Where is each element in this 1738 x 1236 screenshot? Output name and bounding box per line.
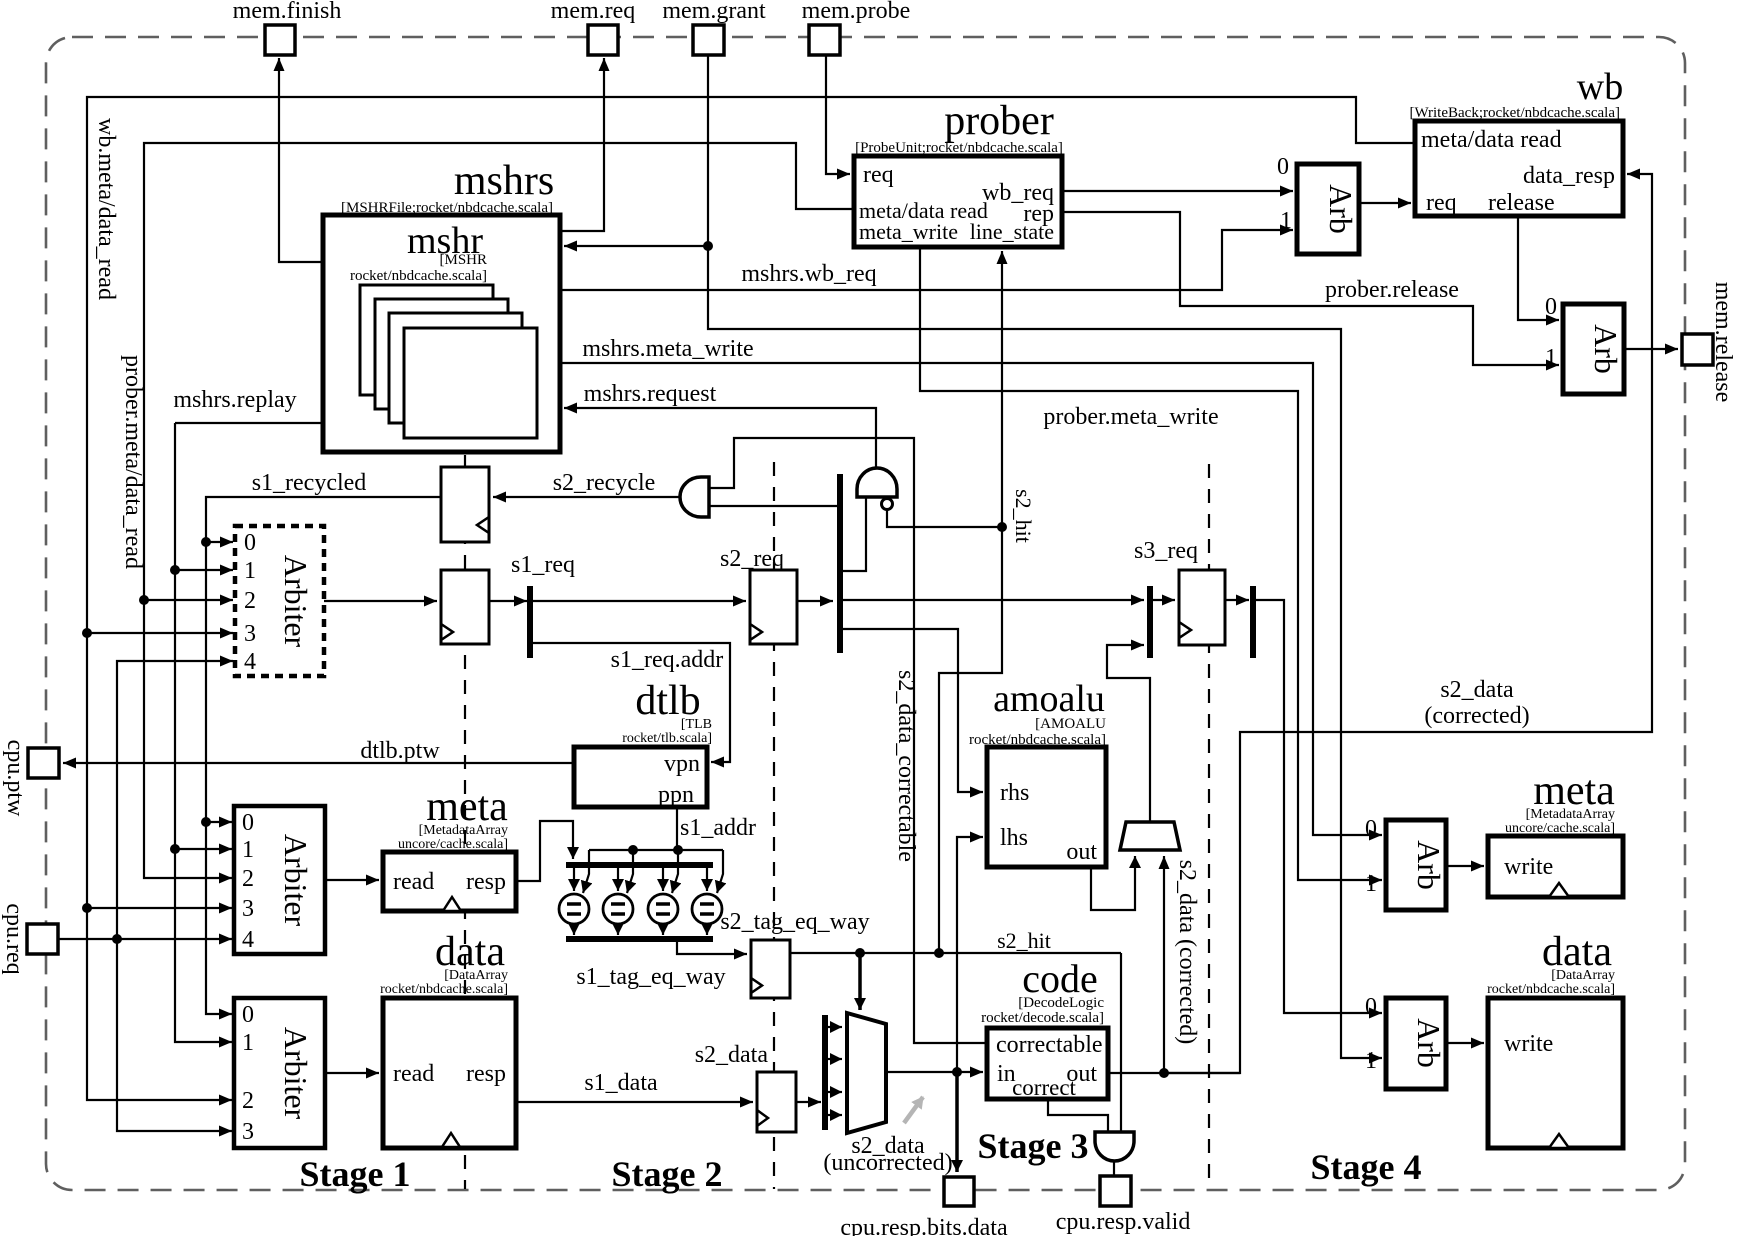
svg-text:0: 0: [244, 530, 256, 556]
svg-text:mshrs.request: mshrs.request: [584, 381, 717, 407]
comparator circle 1: [559, 894, 589, 924]
svg-text:mshrs.replay: mshrs.replay: [173, 387, 296, 413]
svg-text:out: out: [1066, 839, 1097, 865]
svg-text:[DataArray: [DataArray: [1551, 968, 1615, 983]
junction s2_hit: [997, 522, 1007, 532]
mshr stack squares: [360, 285, 493, 395]
wire mshrs.wb_req to Arb in1: [560, 230, 1293, 290]
comparator output arrows: [573, 926, 575, 935]
block mshrs: [323, 215, 560, 452]
svg-text:prober.meta/data_read: prober.meta/data_read: [120, 355, 146, 569]
svg-text:0: 0: [1545, 294, 1557, 320]
svg-text:s1_addr: s1_addr: [680, 815, 756, 841]
svg-text:[MSHRFile;rocket/nbdcache.scal: [MSHRFile;rocket/nbdcache.scala]: [341, 200, 553, 216]
svg-text:prober.meta_write: prober.meta_write: [1043, 404, 1218, 430]
wire way mux select: [858, 953, 862, 1010]
wire s1_addr distribution line: [589, 849, 723, 851]
svg-text:Stage 4: Stage 4: [1311, 1147, 1422, 1187]
wire mem.grant into mshrs: [564, 245, 708, 247]
junction recycled req in0: [201, 537, 211, 547]
svg-text:2: 2: [244, 588, 256, 614]
svg-text:cpu.ptw: cpu.ptw: [2, 740, 28, 817]
wire s2_tag_eq_way / s2_hit net: [790, 952, 1121, 954]
svg-text:lhs: lhs: [1000, 825, 1028, 851]
junction wb read / meta arb in3: [82, 903, 92, 913]
wire code.out corrected: [1108, 1072, 1240, 1074]
svg-text:s1_data: s1_data: [584, 1070, 658, 1096]
svg-text:ppn: ppn: [658, 782, 694, 808]
s2 stage bus bar: [837, 474, 843, 653]
port cpu.resp.bits.data: [944, 1177, 974, 1206]
svg-text:Stage 3: Stage 3: [978, 1126, 1089, 1166]
svg-text:0: 0: [1365, 816, 1377, 842]
svg-text:[MSHR: [MSHR: [439, 252, 487, 268]
wire prober wb_req to Arb in0: [1062, 190, 1293, 192]
svg-text:rocket/nbdcache.scala]: rocket/nbdcache.scala]: [380, 982, 508, 997]
stage divider 3/4: [1208, 464, 1210, 1189]
junction s2_hit tap: [934, 948, 944, 958]
svg-text:dtlb.ptw: dtlb.ptw: [360, 738, 440, 764]
svg-text:meta/data read: meta/data read: [1421, 127, 1562, 153]
port mem.finish: [265, 25, 295, 55]
wire data to amoalu lhs: [957, 837, 983, 1072]
AND gate s2_recycle (D shape pointing left): [680, 477, 709, 517]
port mem.grant: [693, 25, 724, 55]
svg-text:0: 0: [1277, 154, 1289, 180]
tag compare lower bus: [566, 936, 713, 942]
comparator circle 4: [692, 894, 722, 924]
svg-text:s2_data: s2_data: [1440, 677, 1514, 703]
svg-text:req: req: [863, 162, 894, 188]
svg-text:4: 4: [242, 927, 254, 953]
wire s1_req reg to tick: [489, 600, 527, 602]
svg-text:cpu.resp.valid: cpu.resp.valid: [1056, 1209, 1191, 1235]
svg-text:1: 1: [242, 837, 254, 863]
block Arb release: [1563, 304, 1624, 394]
junction mem.grant: [703, 241, 713, 251]
svg-text:meta_write: meta_write: [859, 219, 958, 244]
svg-text:[WriteBack;rocket/nbdcache.sca: [WriteBack;rocket/nbdcache.scala]: [1409, 105, 1620, 121]
tag compare upper bus: [566, 862, 713, 868]
wire mshrs.request from AND gate: [564, 408, 876, 468]
AND gate cpu.resp.valid: [1095, 1132, 1134, 1161]
svg-text:2: 2: [242, 866, 254, 892]
svg-text:1: 1: [1545, 345, 1557, 371]
wire s1_req to s2_req reg: [530, 600, 746, 602]
svg-text:Arb: Arb: [1411, 840, 1447, 890]
svg-text:release: release: [1488, 190, 1555, 216]
svg-text:s2_data_correctable: s2_data_correctable: [893, 670, 919, 862]
wire meta resp to tag bus: [516, 821, 573, 881]
block meta write arb: [1386, 820, 1446, 910]
wire meta write arb to meta array write: [1446, 865, 1484, 867]
wire mshrs.replay to data arb in1: [175, 849, 232, 1042]
svg-text:[AMOALU: [AMOALU: [1035, 716, 1106, 732]
svg-text:rocket/tlb.scala]: rocket/tlb.scala]: [622, 731, 712, 746]
svg-text:[MetadataArray: [MetadataArray: [419, 823, 508, 838]
wire mem.grant refill to data write arb in1: [708, 246, 1382, 1058]
svg-text:amoalu: amoalu: [993, 678, 1105, 720]
junction wb read / req arb in3: [82, 628, 92, 638]
svg-text:1: 1: [244, 558, 256, 584]
comparator input arrows from meta bus: [573, 868, 575, 891]
svg-text:1: 1: [242, 1030, 254, 1056]
tick s1_req bus: [527, 586, 533, 658]
wire s2_hit up to prober line_state: [1001, 251, 1003, 527]
svg-text:1: 1: [1365, 871, 1377, 897]
svg-text:mshrs.wb_req: mshrs.wb_req: [741, 261, 876, 287]
svg-text:uncore/cache.scala]: uncore/cache.scala]: [398, 837, 508, 852]
junction replay req in1: [170, 565, 180, 575]
wire request arbiter to s1_req reg: [324, 600, 437, 602]
junction corrected: [1159, 1068, 1169, 1078]
wire wb.meta/data_read: [87, 97, 1415, 1100]
block data array: [383, 998, 516, 1148]
wire cpu.req up to req arb in4: [117, 661, 233, 939]
svg-text:read: read: [393, 869, 434, 895]
wire corrected up to store mux: [1163, 856, 1165, 1073]
svg-text:cpu.req: cpu.req: [1, 903, 27, 974]
register s2_data: [757, 1072, 796, 1132]
port cpu.resp.valid: [1100, 1176, 1131, 1206]
svg-text:0: 0: [242, 810, 254, 836]
register s3_req: [1179, 570, 1225, 645]
svg-text:mem.req: mem.req: [551, 0, 636, 24]
block meta array write: [1488, 836, 1623, 897]
svg-text:rocket/nbdcache.scala]: rocket/nbdcache.scala]: [1487, 982, 1615, 997]
svg-text:write: write: [1504, 854, 1553, 880]
port mem.probe: [809, 25, 840, 55]
block amoalu: [987, 747, 1106, 867]
block data array write: [1488, 998, 1623, 1148]
wire s1_data to s2_data reg: [516, 1101, 753, 1103]
svg-text:resp: resp: [466, 1061, 506, 1087]
wire s2_recycle gate output to s1_recycled reg: [493, 496, 680, 498]
annotation gray arrow: [904, 1097, 923, 1123]
wire wb.meta/data_read branch to request arbiter in3: [87, 632, 233, 634]
block data write arb: [1386, 998, 1446, 1089]
wire s2_data corrected up to wb data_resp: [1164, 174, 1652, 1073]
svg-text:write: write: [1504, 1031, 1553, 1057]
wire mem.probe to prober req: [826, 55, 850, 174]
svg-text:[DataArray: [DataArray: [444, 968, 508, 983]
wire wb release to Arb2 in0: [1518, 216, 1559, 320]
svg-text:mshrs.meta_write: mshrs.meta_write: [582, 336, 753, 362]
svg-text:s2_hit: s2_hit: [1011, 489, 1036, 543]
wire mshrs.meta_write to meta write arb in0: [560, 363, 1382, 835]
svg-text:mem.probe: mem.probe: [802, 0, 911, 24]
svg-text:Arbiter: Arbiter: [278, 834, 314, 927]
svg-text:4: 4: [244, 649, 256, 675]
tick s3_req input bus: [1147, 586, 1153, 658]
way mux input bus bar: [822, 1015, 828, 1130]
wire prober.meta_write to meta write arb in1: [920, 247, 1382, 880]
svg-text:correctable: correctable: [996, 1032, 1103, 1058]
junction recycled meta in0: [201, 817, 211, 827]
svg-text:s2_hit: s2_hit: [997, 928, 1051, 953]
wire amoalu out to store mux: [1091, 856, 1135, 910]
svg-text:rocket/decode.scala]: rocket/decode.scala]: [981, 1010, 1104, 1026]
svg-text:read: read: [393, 1061, 434, 1087]
junction resp data: [952, 1067, 962, 1077]
port mem.req: [588, 25, 618, 55]
svg-text:wb: wb: [1577, 66, 1623, 108]
wire s2_data_correctable from code to recycle gate: [709, 438, 987, 1043]
block meta array: [383, 852, 516, 911]
wire s3_req to data write arb in0: [1253, 600, 1382, 1013]
svg-text:[ProbeUnit;rocket/nbdcache.sca: [ProbeUnit;rocket/nbdcache.scala]: [855, 140, 1063, 156]
svg-text:(uncorrected): (uncorrected): [823, 1150, 952, 1176]
svg-text:s2_data: s2_data: [695, 1042, 769, 1068]
svg-text:mshrs: mshrs: [454, 158, 554, 204]
wire mem.req from mshrs: [560, 58, 604, 231]
wire Arb2 to mem.release: [1624, 348, 1678, 350]
svg-text:req: req: [1426, 190, 1457, 216]
register s2_tag_eq_way: [751, 940, 790, 998]
wire s1_recycled to req arb in0: [206, 497, 441, 542]
wire cpu.req to meta arb in4: [58, 938, 232, 940]
comparator circle 2: [603, 894, 633, 924]
svg-text:Arb: Arb: [1323, 184, 1359, 234]
svg-text:correct: correct: [1012, 1075, 1076, 1100]
svg-text:mem.finish: mem.finish: [233, 0, 342, 24]
svg-text:s2_data (corrected): s2_data (corrected): [1174, 860, 1200, 1045]
svg-text:2: 2: [242, 1088, 254, 1114]
svg-text:data_resp: data_resp: [1523, 163, 1615, 189]
wire s3 tick to s3_req reg: [1150, 599, 1175, 601]
wire data write arb to data array write: [1446, 1042, 1484, 1044]
svg-text:mem.grant: mem.grant: [662, 0, 766, 24]
wire dtlb ppn down to s1_addr line: [676, 807, 678, 850]
AND gate mshrs.request (dome with bubble): [857, 468, 897, 497]
svg-text:s1_req.addr: s1_req.addr: [611, 647, 724, 673]
svg-text:Arbiter: Arbiter: [278, 1027, 314, 1120]
junction s1_addr ppn: [673, 845, 683, 855]
wire prober.meta/data_read: [144, 143, 854, 878]
wire way mux out to code.in: [886, 1071, 983, 1073]
svg-text:prober: prober: [944, 98, 1054, 144]
wire s1_recycled to data arb in0: [206, 822, 232, 1014]
wire meta arbiter to meta read: [325, 879, 379, 881]
register s1_req: [441, 570, 489, 644]
wire mshrs.replay down to req arb in1: [175, 423, 233, 570]
wire uncorrected data to cpu.resp.bits.data: [955, 1072, 959, 1172]
wire mem.finish from mshrs: [279, 58, 323, 262]
wire s2_hit to resp valid AND: [1120, 953, 1122, 1132]
wire s2_data reg to way bus: [796, 1101, 821, 1103]
wire tag result to s2_tag_eq_way reg: [677, 941, 747, 954]
svg-text:Stage 1: Stage 1: [300, 1154, 411, 1194]
svg-text:1: 1: [1365, 1048, 1377, 1074]
wire recycle gate input from s2 bus: [709, 505, 840, 507]
wire AND gate bubble to s2_hit: [887, 510, 1002, 527]
wire code.correct to resp valid AND: [1048, 1099, 1108, 1132]
register s2_req: [750, 570, 797, 644]
wire prober read branch to request arbiter in2: [144, 599, 233, 601]
svg-text:Arb: Arb: [1411, 1018, 1447, 1068]
block code: [987, 1028, 1108, 1099]
block wb: [1415, 121, 1623, 216]
register s1_recycled: [441, 467, 489, 542]
wire s2_req to s3 tick: [843, 599, 1144, 601]
tick s3_req output bus: [1250, 586, 1256, 658]
svg-text:3: 3: [244, 621, 256, 647]
svg-text:0: 0: [1365, 994, 1377, 1020]
wire prober rep / prober.release to Arb2 in1: [1062, 212, 1559, 365]
stage divider 2/3: [773, 462, 775, 1189]
svg-text:s3_req: s3_req: [1134, 538, 1198, 564]
junction cpu.req: [112, 934, 122, 944]
block meta arbiter: [234, 806, 325, 954]
svg-text:Stage 2: Stage 2: [612, 1154, 723, 1194]
svg-text:s1_recycled: s1_recycled: [252, 470, 367, 496]
wire s1_recycled to meta arb in0: [205, 542, 207, 822]
svg-text:wb.meta/data_read: wb.meta/data_read: [93, 118, 119, 300]
wire data arbiter to data read: [325, 1072, 379, 1074]
svg-text:s2_recycle: s2_recycle: [553, 470, 656, 496]
svg-text:0: 0: [242, 1002, 254, 1028]
svg-text:3: 3: [242, 896, 254, 922]
svg-text:rocket/nbdcache.scala]: rocket/nbdcache.scala]: [969, 732, 1106, 748]
wire AND gate input from s2 bus: [840, 497, 866, 571]
port cpu.ptw: [28, 748, 59, 778]
svg-text:vpn: vpn: [664, 751, 700, 777]
junction replay meta in1: [170, 844, 180, 854]
way mux input arrows: [827, 1026, 842, 1028]
svg-text:line_state: line_state: [970, 219, 1054, 244]
svg-text:[DecodeLogic: [DecodeLogic: [1018, 995, 1104, 1011]
svg-text:[MetadataArray: [MetadataArray: [1526, 807, 1615, 822]
svg-text:[TLB: [TLB: [681, 717, 712, 732]
wire Arb to wb req: [1359, 202, 1411, 204]
wire store mux out to s3 tick: [1107, 645, 1150, 822]
wire mshrs.replay: [175, 422, 323, 424]
junction way mux select: [855, 948, 865, 958]
svg-text:resp: resp: [466, 869, 506, 895]
svg-text:cpu.resp.bits.data: cpu.resp.bits.data: [840, 1215, 1008, 1236]
junction s1_addr drop2: [628, 845, 638, 855]
block dtlb: [574, 747, 707, 807]
wire s2_hit down jog: [939, 527, 1002, 953]
wire s3_req reg out to tick: [1225, 599, 1249, 601]
svg-text:prober.release: prober.release: [1325, 277, 1459, 303]
block prober: [854, 156, 1062, 247]
wire mshrs.replay to meta arb in1: [174, 570, 176, 849]
svg-text:mem.release: mem.release: [1710, 282, 1736, 403]
store mux trapezoid: [1120, 822, 1180, 850]
stage divider 1/2: [464, 455, 466, 1189]
svg-text:rocket/nbdcache.scala]: rocket/nbdcache.scala]: [350, 268, 487, 284]
wire resp valid AND to port: [1113, 1160, 1115, 1176]
wire s2_req reg to s2 bus: [797, 600, 833, 602]
wire dtlb.ptw to cpu.ptw: [63, 762, 574, 764]
wire wb.meta/data_read branch to meta arbiter in3: [87, 907, 232, 909]
comparator circle 3: [648, 894, 678, 924]
block data arbiter: [234, 998, 325, 1148]
svg-text:Arb: Arb: [1588, 324, 1624, 374]
wire cpu.req down to data arb in3: [117, 939, 232, 1131]
svg-text:s1_req: s1_req: [511, 552, 575, 578]
way mux trapezoid: [847, 1013, 886, 1133]
svg-text:s2_tag_eq_way: s2_tag_eq_way: [720, 909, 869, 935]
comparator input arrows from s1_addr: [583, 850, 589, 893]
wire mem.grant down: [707, 55, 709, 246]
svg-text:rhs: rhs: [1000, 780, 1029, 806]
svg-text:uncore/cache.scala]: uncore/cache.scala]: [1505, 821, 1615, 836]
svg-text:s2_req: s2_req: [720, 546, 784, 572]
svg-text:(corrected): (corrected): [1424, 703, 1529, 729]
svg-text:s1_tag_eq_way: s1_tag_eq_way: [576, 964, 725, 990]
wire s1_req.addr to dtlb vpn: [530, 643, 730, 762]
wire s2 bus to amoalu rhs: [843, 629, 983, 792]
svg-text:1: 1: [1280, 208, 1292, 234]
block Arb wbreq: [1297, 164, 1359, 254]
svg-text:3: 3: [242, 1119, 254, 1145]
junction prober read / req arb in2: [139, 595, 149, 605]
block request arbiter (dashed): [235, 526, 324, 676]
svg-text:Arbiter: Arbiter: [278, 555, 314, 648]
port cpu.req: [27, 924, 58, 954]
port mem.release: [1682, 334, 1713, 365]
